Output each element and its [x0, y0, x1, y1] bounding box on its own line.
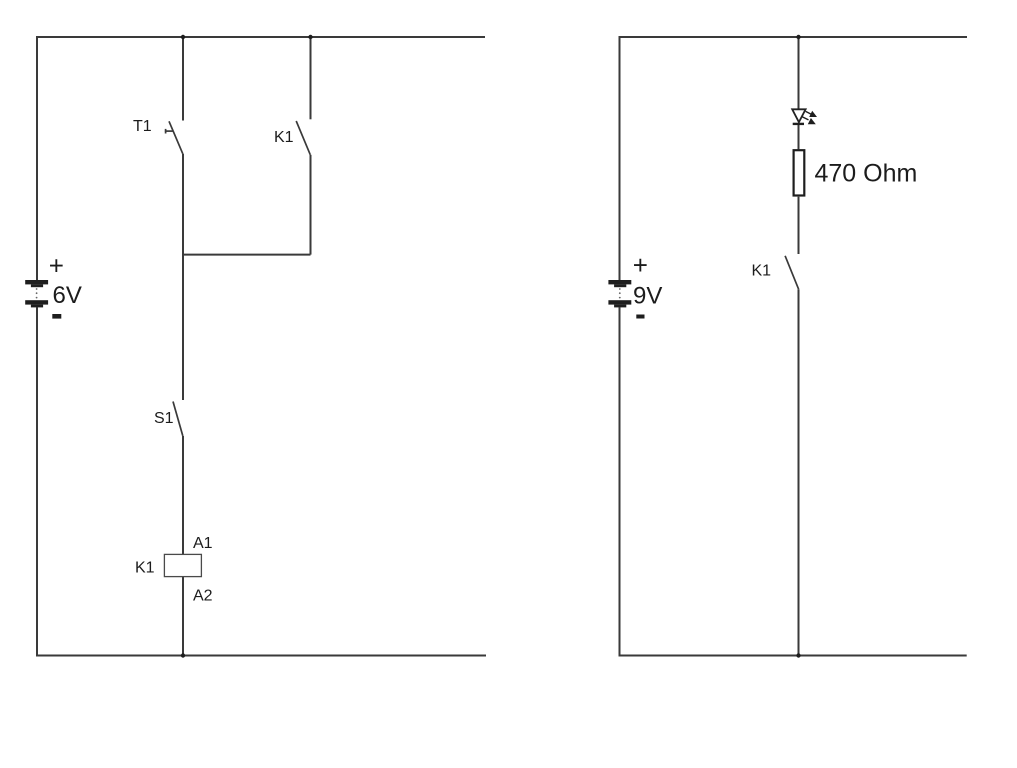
- svg-text:K1: K1: [752, 262, 772, 279]
- svg-text:6V: 6V: [53, 282, 82, 309]
- svg-text:K1: K1: [274, 129, 294, 146]
- svg-text:S1: S1: [154, 410, 174, 427]
- svg-text:K1: K1: [135, 560, 155, 577]
- svg-text:A2: A2: [193, 588, 213, 605]
- svg-text:9V: 9V: [633, 283, 662, 310]
- svg-text:+: +: [633, 250, 648, 280]
- svg-text:T1: T1: [133, 118, 152, 135]
- svg-text:470 Ohm: 470 Ohm: [815, 160, 918, 188]
- svg-text:A1: A1: [193, 535, 213, 552]
- svg-text:+: +: [49, 251, 64, 281]
